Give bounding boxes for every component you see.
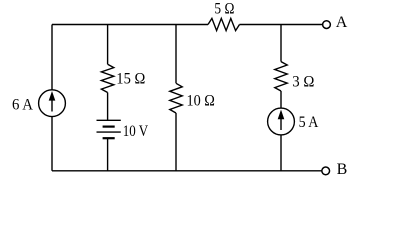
resistor 5ohm top — [208, 18, 240, 30]
wire branch2 lower — [107, 138, 109, 171]
wire branch3 lower — [175, 113, 177, 171]
wire branch4 upper — [280, 25, 282, 62]
wire branch2 middle — [107, 93, 109, 121]
resistor 3ohm — [275, 62, 287, 91]
svg-text:5 Ω: 5 Ω — [214, 1, 234, 18]
wire branch4 middle — [280, 91, 282, 108]
svg-text:10 V: 10 V — [123, 123, 149, 140]
wire branch4 lower — [280, 135, 282, 171]
wire left branch lower — [51, 117, 53, 171]
svg-text:B: B — [337, 161, 348, 178]
terminal A circle — [323, 21, 331, 29]
wire top left segment — [52, 24, 208, 26]
wire left branch upper — [51, 25, 53, 90]
current source 6A circle — [39, 90, 66, 117]
wire branch3 upper — [175, 25, 177, 84]
svg-text:10 Ω: 10 Ω — [187, 92, 215, 109]
resistor 10ohm — [170, 83, 182, 113]
resistor 15ohm — [101, 64, 113, 92]
wire branch2 upper — [107, 25, 109, 65]
terminal B circle — [322, 167, 330, 175]
svg-text:15 Ω: 15 Ω — [116, 71, 145, 88]
svg-text:A: A — [336, 14, 348, 31]
svg-text:5 A: 5 A — [299, 114, 319, 131]
current source 5A circle — [268, 108, 295, 135]
wire bottom — [52, 170, 322, 172]
svg-text:6 A: 6 A — [12, 97, 33, 114]
battery 10V — [97, 120, 121, 138]
current source 5A arrow — [278, 110, 285, 130]
svg-text:3 Ω: 3 Ω — [292, 73, 314, 90]
wire top right segment — [240, 24, 323, 26]
current source 6A arrow — [49, 91, 56, 112]
